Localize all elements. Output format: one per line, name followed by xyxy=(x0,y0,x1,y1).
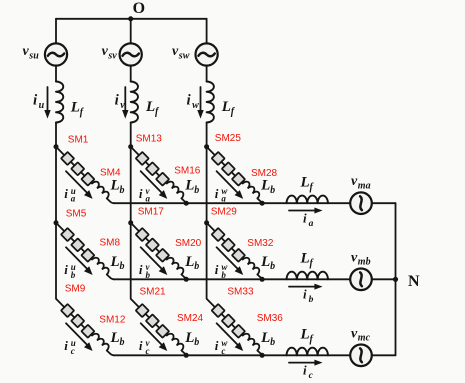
junction: arm on output line xyxy=(260,353,265,358)
svg-text:i: i xyxy=(303,287,307,302)
wire: output line b (left) xyxy=(114,278,351,280)
svg-text:i: i xyxy=(215,338,219,353)
svg-text:L: L xyxy=(110,330,120,346)
junction: arm tap on bus xyxy=(128,144,133,149)
submodule chain SM13-SM16 (arm v-a) xyxy=(127,143,185,201)
svg-text:SM21: SM21 xyxy=(140,287,167,298)
svg-text:L: L xyxy=(184,178,194,194)
wire: node O to source v_sw xyxy=(206,19,208,44)
svg-text:b: b xyxy=(194,337,199,348)
svg-text:SM13: SM13 xyxy=(136,133,163,144)
svg-text:SM12: SM12 xyxy=(99,315,126,326)
current arrow i_a xyxy=(289,210,316,212)
svg-text:N: N xyxy=(408,273,420,290)
svg-text:SM5: SM5 xyxy=(66,208,87,219)
svg-text:b: b xyxy=(120,337,125,348)
current arrow ib^w xyxy=(217,247,239,269)
svg-text:sv: sv xyxy=(107,51,117,62)
current arrow ic^u xyxy=(66,323,88,345)
svg-text:b: b xyxy=(120,261,125,272)
svg-text:i: i xyxy=(139,338,143,353)
svg-text:L: L xyxy=(70,100,80,116)
svg-text:O: O xyxy=(133,0,145,17)
junction: arm on output line xyxy=(184,201,189,206)
svg-text:SM17: SM17 xyxy=(138,206,165,217)
inductor Lf (phase v) xyxy=(131,82,138,123)
junction: arm tap on bus xyxy=(54,220,59,225)
svg-text:b: b xyxy=(194,185,199,196)
svg-text:b: b xyxy=(221,270,226,280)
svg-text:L: L xyxy=(145,99,155,115)
svg-text:L: L xyxy=(260,330,270,346)
inductor Lf (phase w) xyxy=(207,82,214,123)
svg-text:b: b xyxy=(194,261,199,272)
svg-text:L: L xyxy=(300,251,310,267)
current arrow i_w xyxy=(200,87,202,111)
svg-text:L: L xyxy=(110,254,120,270)
svg-text:L: L xyxy=(221,99,231,115)
svg-text:i: i xyxy=(215,186,219,201)
submodule chain SM17-SM20 (arm v-b) xyxy=(127,219,185,277)
svg-text:b: b xyxy=(120,185,125,196)
wire: top rail (node O) xyxy=(56,18,207,20)
wire: node O to source v_sv xyxy=(130,19,132,44)
junction: arm tap on bus xyxy=(204,220,209,225)
svg-text:b: b xyxy=(270,261,275,272)
svg-text:a: a xyxy=(309,219,314,229)
wire: source v_sv to inductor Lf xyxy=(130,66,132,82)
svg-text:SM29: SM29 xyxy=(211,207,238,218)
svg-text:b: b xyxy=(71,270,76,280)
submodule chain SM25-SM28 (arm w-a) xyxy=(203,143,261,201)
junction: node O xyxy=(128,16,133,21)
submodule chain SM9-SM12 (arm u-c) xyxy=(53,295,111,353)
wire: output line b (right) xyxy=(372,278,396,280)
junction: arm on output line xyxy=(184,353,189,358)
wire: phase w bus xyxy=(206,123,208,299)
current arrow ic^v xyxy=(141,323,163,345)
svg-text:c: c xyxy=(71,346,75,356)
voltage source v_mb xyxy=(350,269,372,291)
svg-text:c: c xyxy=(146,346,150,356)
svg-text:SM20: SM20 xyxy=(175,238,202,249)
voltage source v_ma xyxy=(350,192,372,214)
wire: right bus to node N xyxy=(395,203,397,355)
junction: arm tap on bus xyxy=(128,220,133,225)
current arrow i_b xyxy=(289,286,316,288)
svg-text:w: w xyxy=(192,100,199,111)
svg-text:SM25: SM25 xyxy=(215,133,242,144)
svg-text:SM1: SM1 xyxy=(68,134,89,145)
current arrow ib^v xyxy=(141,247,163,269)
svg-text:u: u xyxy=(39,100,45,111)
svg-text:i: i xyxy=(139,186,143,201)
voltage source v_su xyxy=(45,43,67,65)
svg-text:SM24: SM24 xyxy=(177,313,204,324)
svg-text:b: b xyxy=(309,295,314,305)
svg-text:L: L xyxy=(184,330,194,346)
current arrow ia^v xyxy=(141,171,163,193)
svg-text:SM16: SM16 xyxy=(174,166,201,177)
wire: phase u bus xyxy=(55,123,57,299)
svg-text:a: a xyxy=(221,194,226,204)
inductor Lf (output b) xyxy=(287,272,328,280)
svg-text:a: a xyxy=(146,194,151,204)
svg-text:i: i xyxy=(303,363,307,378)
svg-text:b: b xyxy=(270,185,275,196)
svg-text:i: i xyxy=(215,262,219,277)
wire: node O to source v_su xyxy=(55,19,57,44)
svg-text:L: L xyxy=(110,178,120,194)
inductor Lf (output a) xyxy=(287,196,328,204)
svg-text:L: L xyxy=(184,254,194,270)
svg-text:v: v xyxy=(120,100,125,111)
inductor Lf (output c) xyxy=(287,348,328,356)
submodule chain SM29-SM32 (arm w-b) xyxy=(203,219,261,277)
junction: arm tap on bus xyxy=(54,144,59,149)
svg-text:i: i xyxy=(64,186,68,201)
submodule chain SM1-SM4 (arm u-a) xyxy=(53,143,111,201)
wire: output line a (right) xyxy=(372,202,396,204)
junction: arm on output line xyxy=(260,201,265,206)
wire: phase v bus xyxy=(130,123,132,299)
current arrow ia^w xyxy=(217,171,239,193)
svg-text:L: L xyxy=(260,178,270,194)
voltage source v_sv xyxy=(120,43,142,65)
junction: arm on output line xyxy=(184,277,189,282)
svg-text:b: b xyxy=(270,337,275,348)
svg-text:i: i xyxy=(303,211,307,226)
svg-text:c: c xyxy=(221,346,225,356)
submodule chain SM33-SM36 (arm w-c) xyxy=(203,295,261,353)
current arrow i_v xyxy=(124,87,126,111)
current arrow i_u xyxy=(47,87,49,111)
svg-text:SM32: SM32 xyxy=(247,238,274,249)
voltage source v_mc xyxy=(350,345,372,367)
svg-text:b: b xyxy=(146,270,151,280)
svg-text:L: L xyxy=(300,174,310,190)
inductor Lf (phase u) xyxy=(56,82,63,123)
current arrow ib^u xyxy=(66,247,88,269)
svg-text:ma: ma xyxy=(358,181,371,192)
svg-text:SM9: SM9 xyxy=(65,283,86,294)
submodule chain SM5-SM8 (arm u-b) xyxy=(53,219,111,277)
svg-text:a: a xyxy=(71,194,76,204)
junction: arm tap on bus xyxy=(204,144,209,149)
svg-text:mb: mb xyxy=(358,257,371,268)
wire: output line a (left) xyxy=(114,202,351,204)
submodule chain SM21-SM24 (arm v-c) xyxy=(127,295,185,353)
voltage source v_sw xyxy=(196,43,218,65)
svg-text:i: i xyxy=(139,262,143,277)
current arrow ic^w xyxy=(217,323,239,345)
svg-text:L: L xyxy=(260,254,270,270)
junction: node N xyxy=(393,277,398,282)
svg-text:SM8: SM8 xyxy=(100,238,121,249)
junction: arm on output line xyxy=(260,277,265,282)
svg-text:mc: mc xyxy=(358,333,371,344)
svg-text:i: i xyxy=(64,338,68,353)
svg-text:SM36: SM36 xyxy=(257,313,284,324)
current arrow i_c xyxy=(289,362,316,364)
wire: source v_su to inductor Lf xyxy=(55,66,57,82)
svg-text:su: su xyxy=(28,51,39,62)
svg-text:L: L xyxy=(300,327,310,343)
svg-text:SM33: SM33 xyxy=(227,287,254,298)
svg-text:sw: sw xyxy=(178,51,190,62)
svg-text:i: i xyxy=(64,262,68,277)
wire: source v_sw to inductor Lf xyxy=(206,66,208,82)
current arrow ia^u xyxy=(66,171,88,193)
wire: output line c (left) xyxy=(114,354,351,356)
wire: output line c (right) xyxy=(372,354,396,356)
